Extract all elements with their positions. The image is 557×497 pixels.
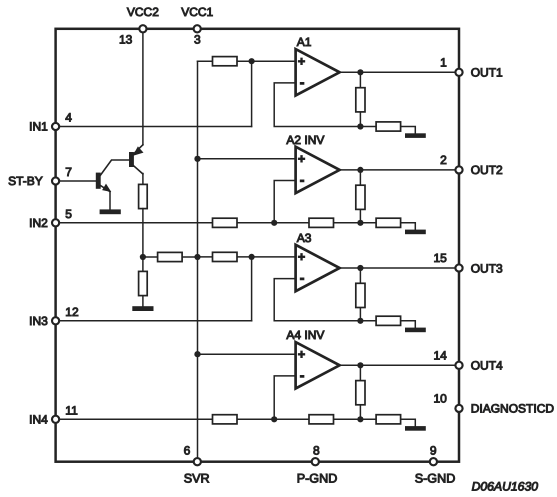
svg-text:D06AU1630: D06AU1630	[472, 480, 539, 494]
svg-text:IN3: IN3	[29, 314, 48, 328]
svg-text:SVR: SVR	[184, 471, 210, 485]
svg-text:7: 7	[65, 165, 72, 179]
svg-text:A3: A3	[297, 231, 312, 245]
svg-text:IN1: IN1	[29, 120, 48, 134]
svg-text:IN2: IN2	[29, 216, 48, 230]
svg-text:ST-BY: ST-BY	[8, 174, 43, 188]
svg-text:+: +	[298, 347, 305, 361]
svg-text:+: +	[298, 152, 305, 166]
svg-text:OUT3: OUT3	[471, 261, 503, 275]
svg-text:3: 3	[194, 33, 201, 47]
svg-text:P-GND: P-GND	[297, 471, 338, 485]
svg-text:A4 INV: A4 INV	[286, 328, 324, 342]
svg-text:9: 9	[430, 443, 437, 457]
svg-text:14: 14	[433, 348, 447, 362]
svg-text:OUT2: OUT2	[471, 163, 503, 177]
svg-text:VCC1: VCC1	[181, 5, 213, 19]
svg-text:A2 INV: A2 INV	[286, 133, 324, 147]
svg-text:A1: A1	[297, 35, 312, 49]
svg-text:S-GND: S-GND	[415, 471, 456, 485]
svg-text:DIAGNOSTICD: DIAGNOSTICD	[471, 402, 555, 416]
svg-text:8: 8	[313, 443, 320, 457]
svg-text:12: 12	[65, 305, 79, 319]
svg-text:-: -	[300, 172, 305, 188]
svg-text:-: -	[300, 367, 305, 383]
svg-text:6: 6	[184, 443, 191, 457]
svg-text:15: 15	[433, 251, 447, 265]
svg-text:4: 4	[65, 111, 72, 125]
svg-text:+: +	[298, 250, 305, 264]
svg-text:IN4: IN4	[29, 412, 48, 426]
svg-text:11: 11	[65, 403, 78, 417]
svg-text:VCC2: VCC2	[127, 5, 159, 19]
svg-text:13: 13	[119, 33, 133, 47]
svg-text:-: -	[300, 74, 305, 90]
svg-text:+: +	[298, 54, 305, 68]
svg-text:1: 1	[440, 55, 447, 69]
svg-text:10: 10	[433, 391, 447, 405]
svg-text:5: 5	[65, 207, 72, 221]
svg-text:OUT4: OUT4	[471, 359, 503, 373]
svg-text:2: 2	[440, 153, 447, 167]
svg-text:-: -	[300, 270, 305, 286]
svg-text:OUT1: OUT1	[471, 66, 503, 80]
